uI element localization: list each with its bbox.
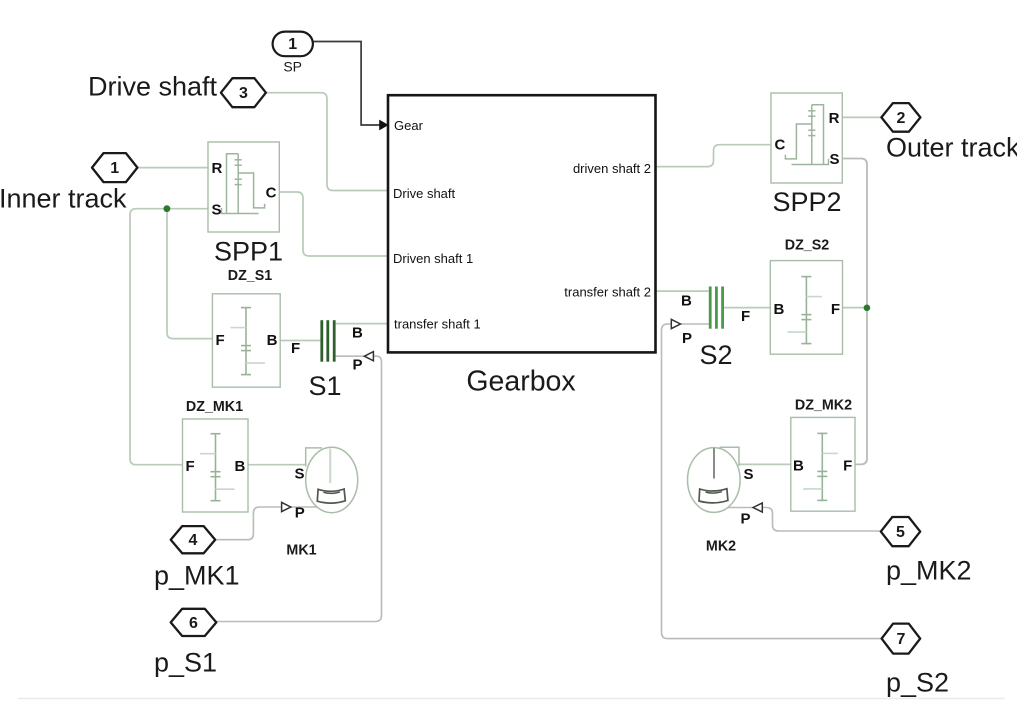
svg-text:P: P — [741, 511, 751, 528]
block DZ_S2 — [770, 261, 842, 355]
svg-text:F: F — [216, 332, 225, 349]
svg-text:Drive shaft: Drive shaft — [88, 72, 218, 102]
clutch S2 plates — [709, 287, 724, 329]
wire Gearbox driven shaft 2 to SPP2 C — [656, 145, 772, 167]
wire clutch S1 P line — [336, 355, 364, 357]
svg-text:6: 6 — [189, 615, 198, 632]
block SPP1 — [208, 142, 279, 232]
wire port5 to MK2 P — [763, 508, 881, 532]
port 3 Drive shaft — [221, 78, 266, 107]
brake MK2 shoe — [699, 489, 728, 503]
svg-text:SPP1: SPP1 — [214, 237, 283, 267]
svg-text:F: F — [831, 301, 840, 318]
svg-text:S: S — [212, 201, 222, 218]
svg-text:3: 3 — [239, 85, 248, 102]
svg-text:transfer shaft 1: transfer shaft 1 — [394, 316, 481, 331]
svg-text:S1: S1 — [308, 371, 341, 401]
arrow MK1 P (open) — [282, 502, 291, 511]
block DZ_S1 — [212, 294, 280, 387]
svg-text:F: F — [843, 458, 852, 475]
svg-text:transfer shaft 2: transfer shaft 2 — [564, 285, 651, 300]
svg-text:B: B — [793, 458, 804, 475]
brake MK2 drum — [688, 448, 741, 513]
svg-text:C: C — [775, 137, 786, 154]
svg-text:B: B — [234, 458, 245, 475]
port 4 p_MK1 — [171, 526, 216, 553]
svg-text:F: F — [741, 308, 750, 325]
brake MK2 shaft — [713, 448, 715, 478]
wire Gearbox transfer shaft 2 to clutch S2 B — [656, 290, 709, 292]
wire MK2 P segment — [707, 507, 753, 509]
svg-text:Gear: Gear — [394, 118, 424, 133]
svg-text:SPP2: SPP2 — [772, 187, 841, 217]
wire clutch S2 P segment — [681, 323, 709, 325]
arrowhead Gear input — [379, 120, 388, 131]
svg-text:SP: SP — [283, 59, 302, 75]
port 5 p_MK2 — [881, 517, 920, 546]
svg-text:F: F — [291, 340, 300, 357]
svg-text:B: B — [352, 324, 363, 341]
svg-text:Gearbox: Gearbox — [466, 366, 575, 398]
wire port1 to SPP1 R — [138, 167, 209, 169]
brake MK1 shoe — [317, 489, 345, 503]
svg-text:R: R — [829, 110, 840, 127]
svg-text:Inner track: Inner track — [0, 184, 127, 214]
svg-text:1: 1 — [110, 160, 119, 177]
svg-text:P: P — [682, 330, 692, 347]
port 6 p_S1 — [171, 609, 217, 636]
svg-text:driven shaft 2: driven shaft 2 — [573, 161, 651, 176]
svg-text:B: B — [681, 293, 692, 310]
wire SP to Gearbox Gear input — [313, 42, 380, 126]
port 1 SP (rounded) — [273, 32, 313, 57]
block Gearbox — [388, 95, 656, 352]
port 7 p_S2 — [882, 624, 921, 654]
wire junction branch to DZ_S1 F — [167, 209, 212, 339]
svg-text:MK1: MK1 — [286, 543, 316, 559]
svg-text:S: S — [295, 465, 305, 482]
svg-text:4: 4 — [188, 532, 197, 549]
icon DZ_MK1 — [200, 434, 235, 501]
brake MK1 shaft — [329, 449, 331, 484]
wire SPP1 S to DZ_MK1 F — [130, 209, 208, 465]
svg-text:B: B — [774, 301, 785, 318]
icon DZ_S1 — [231, 308, 266, 375]
svg-text:2: 2 — [896, 110, 905, 127]
port 2 Outer track — [881, 103, 920, 132]
svg-text:B: B — [267, 332, 278, 349]
arrow MK2 P (open) — [753, 503, 762, 512]
svg-text:Driven shaft 1: Driven shaft 1 — [393, 251, 473, 266]
svg-text:F: F — [186, 458, 195, 475]
icon SPP2 planetary gear — [785, 105, 828, 165]
svg-text:S2: S2 — [699, 340, 732, 370]
wire clutch S1 B to Gearbox transfer shaft 1 — [336, 323, 388, 325]
clutch S1 plates — [320, 320, 335, 362]
brake MK1 tab — [306, 448, 322, 467]
svg-text:DZ_MK1: DZ_MK1 — [186, 399, 243, 415]
wire port3 to Gearbox Drive shaft — [266, 93, 388, 191]
svg-text:p_MK1: p_MK1 — [154, 561, 240, 591]
svg-text:P: P — [353, 356, 363, 373]
svg-text:S: S — [829, 151, 839, 168]
wire p_S1 route from port6 — [216, 356, 381, 621]
bottom rule — [18, 698, 1005, 700]
icon SPP1 planetary gear — [222, 154, 265, 214]
wire DZ_MK1 B to MK1 S — [248, 464, 306, 466]
svg-text:1: 1 — [288, 36, 297, 53]
wire DZ_MK2 B to MK2 S — [739, 463, 791, 465]
wire SPP2 S to DZ_MK2 F (right bus) — [842, 159, 867, 465]
block DZ_MK1 — [183, 419, 249, 512]
brake MK1 drum — [306, 447, 358, 512]
svg-text:DZ_S1: DZ_S1 — [228, 268, 273, 284]
wire clutch S2 F to DZ_S2 B — [724, 307, 771, 309]
svg-text:R: R — [212, 160, 223, 177]
wire p_S2 route from port7 — [662, 324, 884, 639]
wire DZ_S2 F to right bus — [843, 307, 868, 309]
svg-text:MK2: MK2 — [706, 539, 736, 555]
block DZ_MK2 — [791, 417, 855, 511]
wire SPP1 C to Gearbox Driven shaft 1 — [279, 192, 388, 256]
svg-text:p_S2: p_S2 — [886, 668, 949, 698]
svg-text:Outer track: Outer track — [886, 133, 1017, 163]
wire MK1 P segment — [291, 506, 332, 508]
icon DZ_S2 — [787, 277, 822, 344]
svg-text:7: 7 — [896, 631, 905, 648]
svg-text:DZ_S2: DZ_S2 — [785, 238, 830, 254]
svg-text:DZ_MK2: DZ_MK2 — [795, 398, 852, 414]
svg-text:C: C — [266, 185, 277, 202]
wire SPP2 R to port2 — [842, 116, 882, 118]
brake MK2 tab — [720, 447, 740, 466]
svg-text:S: S — [744, 466, 754, 483]
wire port4 to MK1 P — [216, 507, 281, 540]
svg-text:Drive shaft: Drive shaft — [393, 186, 456, 201]
arrow S1 P (open) — [364, 352, 373, 361]
arrow S2 P (open) — [671, 319, 680, 328]
junction node right — [864, 305, 871, 312]
svg-text:p_MK2: p_MK2 — [886, 556, 972, 586]
wire DZ_S1 B to clutch S1 F — [280, 340, 320, 342]
icon DZ_MK2 — [803, 433, 838, 500]
svg-text:p_S1: p_S1 — [154, 648, 217, 678]
junction node left — [164, 205, 171, 212]
svg-text:P: P — [295, 505, 305, 522]
block SPP2 — [771, 93, 842, 183]
port 1 Inner track — [92, 153, 137, 182]
svg-text:5: 5 — [896, 524, 905, 541]
